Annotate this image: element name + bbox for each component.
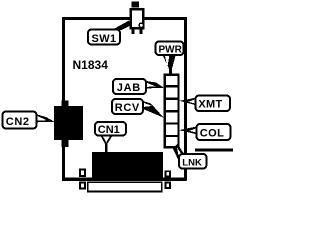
label XMT box: [196, 96, 231, 112]
label SW1 box: [88, 30, 120, 45]
label RCV pointer: [142, 101, 164, 118]
label RCV box: [112, 99, 143, 114]
connector CN2: [54, 106, 83, 140]
LED divider 3: [164, 110, 180, 112]
label JAB box: [113, 79, 146, 94]
svg-text:JAB: JAB: [117, 82, 141, 94]
svg-text:XMT: XMT: [198, 99, 222, 111]
label LNK box: [179, 154, 207, 169]
label CN1 pointer: [100, 135, 113, 153]
svg-text:N1834: N1834: [73, 58, 109, 72]
switch SW1 leg left: [131, 29, 134, 34]
LED divider 4: [164, 122, 180, 124]
LED divider 1: [164, 85, 180, 87]
switch SW1 leg right: [139, 29, 142, 34]
label CN2 pointer: [37, 114, 55, 122]
label COL box: [197, 124, 231, 140]
svg-text:PWR: PWR: [159, 44, 183, 55]
D-sub lug left lower: [80, 183, 85, 189]
LED stack outline: [165, 75, 179, 148]
switch SW1 button: [132, 2, 140, 8]
svg-text:COL: COL: [200, 128, 224, 140]
label COL pointer: [179, 126, 198, 134]
connector CN1: [92, 152, 163, 178]
label LNK pointer: [173, 144, 185, 160]
switch SW1 detail circle: [139, 23, 143, 27]
D-sub lug right lower: [166, 183, 170, 189]
svg-text:CN2: CN2: [6, 116, 30, 128]
label SW1 pointer: [112, 21, 132, 31]
label CN1 box: [95, 122, 126, 136]
svg-text:CN1: CN1: [98, 124, 120, 136]
label CN2 box: [3, 112, 37, 129]
board bottom edge: [62, 178, 187, 181]
connector CN2 neck bottom: [61, 140, 68, 147]
svg-text:SW1: SW1: [92, 33, 117, 45]
D-sub lug right upper: [166, 171, 170, 176]
wire segment right of LNK: [195, 148, 233, 151]
D-sub shell: [88, 182, 162, 191]
label PWR pointer: [162, 54, 176, 75]
board outline: [64, 19, 186, 180]
label JAB pointer: [145, 81, 164, 89]
svg-text:LNK: LNK: [182, 157, 202, 168]
connector CN2 neck top: [61, 101, 68, 107]
svg-text:RCV: RCV: [115, 102, 140, 114]
switch SW1 body: [131, 9, 144, 28]
D-sub lug left upper: [80, 170, 85, 176]
LED divider 5: [164, 135, 180, 137]
LED divider 2: [164, 98, 180, 100]
label XMT pointer: [179, 97, 197, 105]
label PWR box: [156, 42, 184, 56]
